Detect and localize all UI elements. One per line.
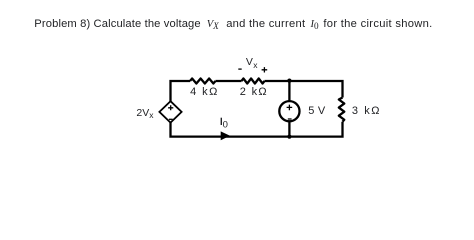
svg-text:x: x — [253, 60, 258, 70]
current arrow I0 on bottom wire — [221, 131, 230, 140]
resistor R2 2 kOhm (top right zigzag) — [242, 79, 265, 84]
wire: middle branch upper (node to 5V source) — [288, 81, 290, 101]
dependent source 2Vx (diamond) — [159, 101, 181, 122]
svg-text:x: x — [149, 110, 154, 120]
minus sign inside diamond — [169, 118, 173, 120]
label I0 (current through bottom wire) — [221, 118, 222, 125]
svg-text:4 kΩ: 4 kΩ — [190, 86, 217, 98]
svg-text:5 V: 5 V — [308, 105, 326, 117]
plus sign inside diamond — [168, 105, 173, 110]
svg-text:3 kΩ: 3 kΩ — [352, 105, 380, 117]
svg-text:V: V — [246, 56, 253, 68]
problem statement text — [34, 19, 200, 30]
svg-text:2 kΩ: 2 kΩ — [240, 86, 267, 98]
plus sign inside 5V circle — [287, 105, 293, 111]
svg-text:2V: 2V — [136, 107, 149, 119]
wire: bottom left segment from diamond to bottom wire — [171, 122, 290, 136]
svg-text:0: 0 — [223, 119, 228, 130]
wire: right branch lower to bottom-right corner — [289, 122, 342, 137]
minus sign inside 5V circle — [288, 118, 292, 120]
resistor R3 3 kOhm (right vertical zigzag) — [339, 98, 345, 122]
node junction top (5V branch to top wire) — [287, 79, 291, 83]
wire: left branch upper (top-left corner down to diamond) — [171, 81, 191, 102]
wire: top right segment to top-right corner and down to 3k — [265, 81, 343, 98]
plus sign right of Vx label — [262, 67, 268, 72]
node junction bottom (5V branch to bottom wire) — [287, 135, 291, 139]
voltage source U1 5V (circle) — [279, 101, 299, 121]
wire: middle branch lower (5V source to bottom node) — [288, 121, 290, 136]
wire: top middle between 4k and 2k — [216, 80, 242, 82]
resistor R1 4 kOhm (top left zigzag) — [190, 79, 215, 84]
minus sign left of Vx label — [238, 68, 241, 70]
